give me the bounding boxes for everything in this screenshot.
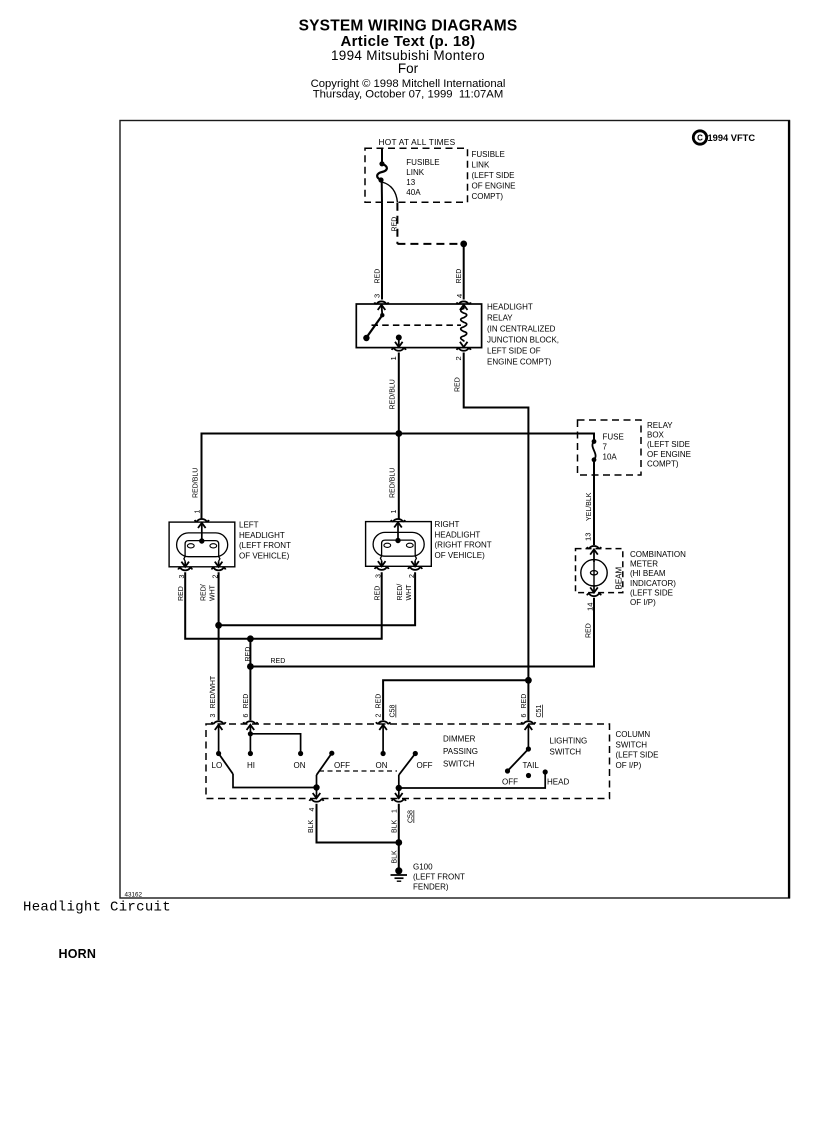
OFF contact dot (505, 768, 510, 773)
wire RED fusible link to relay pin 3 (381, 202, 383, 299)
svg-text:RED: RED (586, 623, 593, 638)
junction dot (247, 635, 254, 642)
filament dot (395, 538, 400, 543)
wire RED down to dimmer pin 6 (249, 639, 251, 721)
svg-text:RED: RED (245, 647, 252, 662)
svg-text:OF VEHICLE): OF VEHICLE) (435, 551, 486, 560)
svg-text:ENGINE COMPT): ENGINE COMPT) (487, 358, 552, 367)
svg-text:WHT: WHT (406, 584, 413, 601)
junction dot (460, 241, 467, 248)
svg-text:C: C (697, 134, 703, 143)
svg-text:4: 4 (455, 294, 464, 298)
wire pin6 to pivot (527, 725, 529, 749)
pin 2 arrow (411, 561, 419, 566)
svg-text:JUNCTION BLOCK,: JUNCTION BLOCK, (487, 336, 559, 345)
relay box dashed rect (578, 420, 642, 475)
wire to dimmer pin 3 (218, 625, 220, 720)
svg-text:HEADLIGHT: HEADLIGHT (239, 531, 285, 540)
wire to filament (397, 522, 399, 540)
exit arrow pin 4 (316, 788, 318, 799)
pin 6 arrow (247, 725, 255, 730)
bracket to ON contact (250, 734, 300, 754)
main horizontal wire RED/BLU (202, 434, 578, 519)
wire RED dimmer pin 2 to relay pin2 wire (383, 680, 528, 720)
wire RED node: left HL pin3 to right HL pin3 (185, 572, 382, 639)
filament loop right (406, 543, 413, 547)
pin 2 connector cup (212, 568, 226, 570)
wire from box top into fusible link (381, 148, 383, 163)
switch contact dot (380, 313, 384, 317)
svg-text:METER: METER (630, 560, 658, 569)
svg-text:BEAM: BEAM (615, 566, 624, 589)
passing ON contact dot (381, 751, 386, 756)
svg-text:1994 VFTC: 1994 VFTC (708, 133, 756, 143)
hi beam indicator bulb (581, 560, 607, 586)
right post (415, 556, 416, 561)
pin 2 connector cup (376, 721, 390, 723)
svg-text:SWITCH: SWITCH (550, 748, 582, 757)
svg-text:FENDER): FENDER) (413, 882, 449, 891)
bracket junction dot (248, 731, 253, 736)
lever to bottom rail (233, 774, 317, 788)
coil arrow to pin 2 (460, 342, 468, 347)
svg-text:40A: 40A (406, 188, 421, 197)
svg-text:HEADLIGHT: HEADLIGHT (435, 530, 481, 539)
svg-text:OFF: OFF (334, 761, 350, 770)
svg-text:3: 3 (373, 294, 382, 298)
wire to right headlight pin 1 (398, 434, 400, 519)
svg-text:RED: RED (456, 269, 463, 284)
wire BLK pin 1 down to ground (398, 804, 400, 868)
pin 4 arrow (460, 305, 468, 310)
headlight bulb outer (373, 532, 424, 556)
rail junction dot (396, 785, 402, 791)
wire pin2 to ON contact (382, 725, 384, 754)
ON contact dot (298, 751, 303, 756)
svg-text:RED: RED (243, 694, 250, 709)
exit arrow pin 1 (398, 788, 400, 798)
headlight bulb outer (177, 533, 228, 557)
pin 3 connector cup (178, 568, 192, 570)
pin 3 arrow (378, 561, 386, 566)
svg-text:RED: RED (375, 269, 382, 284)
junction dot (215, 622, 222, 629)
svg-text:7: 7 (603, 443, 608, 452)
filament loop right (210, 544, 217, 548)
svg-text:(LEFT FRONT: (LEFT FRONT (239, 541, 291, 550)
svg-text:C58: C58 (390, 705, 397, 718)
svg-text:4: 4 (309, 808, 316, 812)
svg-text:BOX: BOX (647, 431, 665, 440)
svg-text:(LEFT SIDE: (LEFT SIDE (647, 440, 690, 449)
svg-text:For: For (398, 61, 419, 76)
svg-text:RED: RED (521, 694, 528, 709)
svg-text:FUSIBLE: FUSIBLE (406, 158, 439, 167)
exit connector cups (310, 799, 324, 801)
svg-text:RED: RED (376, 694, 383, 709)
filament loop left (384, 543, 391, 547)
svg-text:BLK: BLK (391, 850, 398, 864)
fusible link dashed box (365, 148, 468, 202)
svg-text:DIMMER: DIMMER (443, 735, 476, 744)
passing OFF contact dot (413, 751, 418, 756)
HI contact dot (248, 751, 253, 756)
pin 6 connector cup (243, 721, 257, 723)
pin 3 internal wire (381, 305, 384, 315)
svg-text:INDICATOR): INDICATOR) (630, 579, 676, 588)
right headlight box (366, 522, 432, 567)
fusible link FL13 symbol (379, 161, 384, 166)
wire RED comb meter pin 14 down-left (250, 598, 594, 667)
column switch dashed box (206, 724, 610, 799)
wire below fusible link (381, 180, 383, 202)
svg-text:RED/WHT: RED/WHT (210, 675, 217, 708)
wire RED/BLU relay pin 1 down (398, 353, 400, 434)
svg-text:RIGHT: RIGHT (435, 520, 460, 529)
pin 14 arrow (590, 587, 598, 592)
svg-text:RED: RED (375, 586, 382, 601)
svg-text:HI: HI (247, 761, 255, 770)
svg-text:BLK: BLK (391, 819, 398, 833)
svg-text:(HI BEAM: (HI BEAM (630, 569, 666, 578)
svg-text:OF I/P): OF I/P) (616, 761, 642, 770)
headlight bulb inner (382, 540, 416, 556)
right post (219, 557, 220, 562)
svg-text:1: 1 (389, 356, 398, 360)
left headlight box (169, 522, 235, 567)
dimmer lever (219, 754, 233, 775)
switch pivot dot (363, 335, 369, 341)
wire to bulb (593, 549, 595, 562)
svg-text:PASSING: PASSING (443, 747, 478, 756)
pin 3 arrow (215, 725, 223, 730)
svg-text:HEADLIGHT: HEADLIGHT (487, 303, 533, 312)
svg-text:2: 2 (454, 356, 463, 360)
fuse 7 symbol (592, 439, 597, 444)
pin 2 connector cup (457, 348, 471, 350)
pin 1 arrow (394, 522, 402, 527)
svg-text:COMPT): COMPT) (647, 459, 679, 468)
wire down to lighting switch pin 6 (527, 680, 529, 720)
svg-text:COMBINATION: COMBINATION (630, 550, 686, 559)
rail junction dot (313, 784, 319, 790)
svg-text:3: 3 (210, 714, 217, 718)
svg-text:RED: RED (271, 658, 286, 665)
svg-text:6: 6 (521, 714, 528, 718)
switch lever (367, 315, 383, 337)
pin 1 contact dot (396, 335, 402, 341)
pin 3 arrow (378, 305, 386, 310)
relay coil (461, 305, 467, 342)
svg-text:(LEFT SIDE: (LEFT SIDE (472, 171, 515, 180)
copyright logo 1994 VFTC (693, 131, 755, 144)
svg-text:COMPT): COMPT) (472, 192, 504, 201)
combination meter dashed box (576, 549, 623, 593)
pin 2 connector cup (408, 568, 422, 570)
svg-text:OFF: OFF (502, 778, 518, 787)
svg-text:Headlight Circuit: Headlight Circuit (23, 900, 171, 916)
ground G100 (391, 867, 408, 881)
lever pivot to rail (316, 775, 318, 788)
passing lever (399, 754, 416, 776)
filament dot (199, 538, 204, 543)
svg-text:LIGHTING: LIGHTING (550, 737, 588, 746)
svg-text:C51: C51 (536, 705, 543, 718)
svg-text:OF ENGINE: OF ENGINE (472, 182, 516, 191)
junction dot on relay pin 2 wire (525, 677, 532, 684)
wire RED/WHT node: left HL pin2 to right HL pin2 and dimmer pin 3 (219, 572, 416, 625)
svg-text:RED/BLU: RED/BLU (390, 468, 397, 498)
svg-text:OF I/P): OF I/P) (630, 598, 656, 607)
HEAD contact dot (543, 769, 548, 774)
pin 2 arrow (379, 725, 387, 730)
wire YEL/BLK fuse to combination meter (593, 460, 595, 545)
svg-text:LINK: LINK (406, 168, 424, 177)
svg-text:(LEFT FRONT: (LEFT FRONT (413, 872, 465, 881)
svg-text:13: 13 (584, 533, 593, 541)
wire BLK pin 4 down and right (317, 804, 399, 843)
pin 6 lighting arrow (525, 725, 533, 730)
svg-text:13: 13 (406, 178, 415, 187)
pin 1 arrow (395, 342, 403, 347)
svg-text:ON: ON (376, 761, 388, 770)
relay box (356, 304, 481, 348)
svg-text:10A: 10A (603, 453, 618, 462)
svg-text:RED: RED (178, 586, 185, 601)
actuator dashed line (372, 324, 462, 326)
dashed branch wire vertical (396, 203, 398, 244)
svg-text:1: 1 (195, 510, 202, 514)
pin 13 connector cup (587, 546, 601, 548)
svg-text:LO: LO (212, 761, 223, 770)
pin 6 (lighting) connector cup (521, 721, 535, 723)
pin 1 connector cup (195, 519, 209, 521)
svg-text:RED/: RED/ (397, 584, 404, 601)
svg-text:RELAY: RELAY (647, 421, 673, 430)
lighting pivot dot (526, 746, 531, 751)
filament loop left (187, 544, 194, 548)
pin 13 arrow (590, 549, 598, 554)
pin 1 connector cup (392, 348, 406, 350)
pin 3 connector cup (212, 721, 226, 723)
left post (184, 557, 185, 562)
LO contact dot (216, 751, 221, 756)
svg-text:COLUMN: COLUMN (616, 730, 651, 739)
pin 3 connector cup (375, 568, 389, 570)
svg-text:OF VEHICLE): OF VEHICLE) (239, 551, 290, 560)
wire pin6 to bracket (249, 725, 251, 754)
passing pivot to rail (398, 775, 400, 788)
lighting lever to OFF (508, 749, 529, 771)
junction dot (395, 839, 402, 846)
svg-text:OF ENGINE: OF ENGINE (647, 450, 691, 459)
wire RED relay pin 2 down and right (464, 353, 529, 681)
svg-text:LEFT SIDE OF: LEFT SIDE OF (487, 347, 541, 356)
svg-text:2: 2 (376, 714, 383, 718)
svg-text:Thursday, October 07, 1999 11: Thursday, October 07, 1999 11:07AM (313, 89, 503, 101)
svg-text:(LEFT SIDE: (LEFT SIDE (630, 588, 673, 597)
svg-text:YEL/BLK: YEL/BLK (586, 492, 593, 521)
wire to filament (201, 523, 203, 541)
svg-text:OFF: OFF (417, 761, 433, 770)
wire elbow to fuse (578, 434, 595, 440)
svg-text:6: 6 (243, 714, 250, 718)
svg-text:RED/BLU: RED/BLU (390, 379, 397, 409)
pin 1 internal wire (398, 338, 400, 348)
pin 1 connector cup (391, 519, 405, 521)
pin 3 arrow (181, 562, 189, 567)
svg-text:(LEFT SIDE: (LEFT SIDE (616, 751, 659, 760)
svg-text:(IN CENTRALIZED: (IN CENTRALIZED (487, 325, 556, 334)
svg-text:LINK: LINK (472, 161, 490, 170)
svg-text:SWITCH: SWITCH (616, 740, 648, 749)
svg-text:TAIL: TAIL (523, 761, 540, 770)
dimmer OFF contact dot (329, 751, 334, 756)
pin 3 connector cup (375, 301, 389, 303)
dimmer OFF lever (317, 753, 332, 775)
svg-text:RED/: RED/ (201, 584, 208, 601)
svg-text:43162: 43162 (125, 892, 143, 899)
branch curve to dashed wire (382, 182, 397, 202)
svg-text:RELAY: RELAY (487, 314, 513, 323)
wire pin3 to LO contact (218, 725, 220, 754)
wire RED junction to relay pin 4 (463, 244, 465, 300)
svg-text:RED/BLU: RED/BLU (193, 468, 200, 498)
pin 2 arrow (215, 562, 223, 567)
junction dot at right headlight feed (395, 430, 402, 437)
mechanical link dashed (319, 770, 397, 772)
svg-text:BLK: BLK (308, 819, 315, 833)
svg-text:1: 1 (391, 809, 398, 813)
wire bulb to pin14 (593, 585, 595, 593)
svg-text:FUSE: FUSE (603, 433, 624, 442)
svg-text:SWITCH: SWITCH (443, 760, 475, 769)
svg-text:HEAD: HEAD (547, 778, 569, 787)
svg-text:LEFT: LEFT (239, 521, 259, 530)
headlight bulb inner (185, 541, 219, 557)
svg-text:1: 1 (391, 510, 398, 514)
svg-text:ON: ON (294, 761, 306, 770)
pin 14 connector cup (587, 594, 601, 596)
svg-text:(RIGHT FRONT: (RIGHT FRONT (435, 541, 492, 550)
svg-text:RED: RED (455, 377, 462, 392)
svg-text:WHT: WHT (210, 584, 217, 601)
rail to HEAD contact (399, 772, 545, 788)
pin 1 arrow (198, 523, 206, 528)
pin 4 connector cup (457, 301, 471, 303)
svg-text:HOT AT ALL TIMES: HOT AT ALL TIMES (379, 137, 456, 147)
TAIL contact dot (526, 773, 531, 778)
svg-text:FUSIBLE: FUSIBLE (472, 150, 505, 159)
junction dot at RED crossing (247, 663, 254, 670)
left post (380, 556, 381, 561)
svg-text:G100: G100 (413, 862, 433, 871)
svg-text:C58: C58 (408, 810, 415, 823)
svg-text:HORN: HORN (59, 947, 97, 961)
dashed branch wire horizontal (397, 243, 463, 245)
